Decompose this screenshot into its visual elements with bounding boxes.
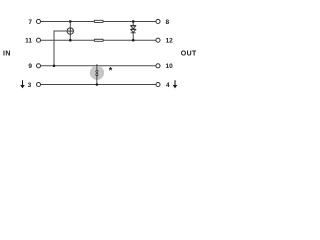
junction row4 / spark gap xyxy=(96,83,99,86)
svg-text:10: 10 xyxy=(166,63,174,70)
resistor R1 (top line) xyxy=(94,20,103,22)
terminal 9 xyxy=(36,64,40,68)
resistor R2 (bottom line) xyxy=(94,39,103,41)
terminal 8 xyxy=(156,19,160,23)
junction row1 / arrester top electrode xyxy=(69,20,72,23)
svg-text:9: 9 xyxy=(28,63,32,70)
svg-text:12: 12 xyxy=(166,38,174,45)
terminal 4 xyxy=(156,82,160,86)
terminal 7 xyxy=(36,19,40,23)
wire row1 (7 to 8) xyxy=(41,20,156,22)
svg-text:*: * xyxy=(109,66,113,76)
wire row3 (9 to 10) xyxy=(41,65,156,67)
junction row3 / arrester center electrode xyxy=(53,65,56,68)
terminal 3 xyxy=(36,82,40,86)
wire row4 (3 to 4, ground line) xyxy=(41,84,156,86)
ground arrow left (earth at terminal 3) xyxy=(20,80,25,88)
suppressor diode V1 (between row1 and row2) xyxy=(131,21,136,40)
junction row3 / spark gap xyxy=(96,65,99,68)
svg-text:3: 3 xyxy=(28,82,32,89)
wire arrester center electrode to row3 xyxy=(54,31,67,66)
spark gap housing (gray disc) xyxy=(90,66,104,80)
terminal 11 xyxy=(36,38,40,42)
svg-text:7: 7 xyxy=(28,19,32,26)
wire arrester top lead xyxy=(69,21,71,28)
ground arrow right (earth at terminal 4) xyxy=(173,80,178,88)
terminal 10 xyxy=(156,64,160,68)
terminal 12 xyxy=(156,38,160,42)
junction row1 / suppressor diode xyxy=(132,20,135,23)
svg-text:4: 4 xyxy=(166,82,170,89)
spark gap electrodes xyxy=(96,66,98,85)
svg-text:IN: IN xyxy=(3,50,11,57)
svg-text:OUT: OUT xyxy=(181,50,197,57)
junction row2 / suppressor diode xyxy=(132,39,135,42)
wire arrester bottom lead xyxy=(69,34,71,40)
svg-text:8: 8 xyxy=(166,19,170,26)
gas discharge tube F1 (3-electrode arrester) xyxy=(67,28,73,34)
svg-text:11: 11 xyxy=(25,38,32,45)
junction row2 / arrester bottom electrode xyxy=(69,39,72,42)
wire row2 (11 to 12) xyxy=(41,39,156,41)
